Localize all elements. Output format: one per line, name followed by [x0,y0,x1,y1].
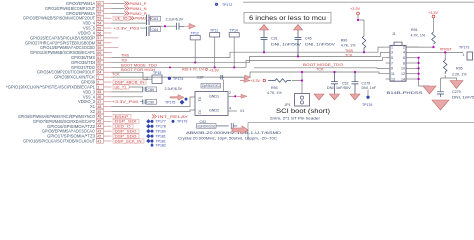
connector J1 body [390,32,406,81]
svg-text:+3.3V: +3.3V [428,11,438,15]
svg-text:1: 1 [97,75,99,79]
svg-text:TCK: TCK [112,72,120,76]
svg-text:TP14: TP14 [230,28,238,32]
svg-text:BOOT FOR HIGH: BOOT FOR HIGH [121,68,155,72]
net flag PWM1_P [112,2,147,7]
svg-text:DSP_SDO: DSP_SDO [115,130,137,134]
wire TDI [112,52,386,62]
wire R91 to pin2 [406,46,434,48]
svg-text:+3.3V_P63: +3.3V_P63 [113,27,139,31]
svg-text:R95: R95 [456,67,463,71]
svg-text:53: 53 [97,17,101,21]
test point TP174 [168,77,184,81]
net label DSP_SCK_IN [113,139,144,144]
resistor R94 [267,79,291,96]
test point TP15 [146,71,162,84]
capacitor C92 value box [197,120,238,129]
capacitor C31 DNI [260,25,302,53]
test point TP179 [172,120,188,124]
svg-text:50: 50 [97,2,101,6]
test point TP175 [165,98,188,105]
svg-text:51: 51 [97,7,101,11]
svg-text:TMS: TMS [121,54,129,58]
resistor R91 [411,28,436,44]
svg-text:8: 8 [403,61,405,65]
svg-text:C279: C279 [362,82,371,86]
svg-text:57: 57 [97,36,101,40]
power +3.3V rail 1 [350,7,364,36]
resistor R90 [341,36,366,58]
svg-text:DSP_48CB_IN: DSP_48CB_IN [115,80,145,84]
test point TP14 [229,28,239,67]
test point TP181 [146,134,166,139]
svg-text:TP182: TP182 [156,144,166,148]
svg-text:X2: X2 [198,110,202,114]
svg-text:SCI boot (short): SCI boot (short) [276,108,330,115]
svg-text:B14B-PHDSS: B14B-PHDSS [387,91,424,95]
svg-text:61: 61 [97,56,101,60]
svg-text:2.2K, 1%: 2.2K, 1% [452,72,467,76]
svg-text:TP12: TP12 [191,31,199,35]
svg-text:+3.3V: +3.3V [250,79,260,83]
svg-text:7: 7 [391,61,393,65]
svg-text:9: 9 [391,67,393,71]
capacitor C89 [143,87,183,92]
svg-text:#TRST: #TRST [440,48,453,52]
net flag arrow near C90 [170,95,184,101]
net label DSP_SDO [113,134,139,139]
svg-text:TP178: TP178 [156,125,166,129]
svg-text:42: 42 [97,134,101,138]
capacitor C45 DNI [294,25,336,57]
svg-text:6: 6 [403,56,405,60]
power +3.3V for JP1 [240,79,266,84]
svg-text:X1: X1 [198,97,202,101]
svg-text:1: 1 [146,77,148,81]
svg-text:R91: R91 [411,28,418,32]
svg-text:10pF/50V/C0G1: 10pF/50V/C0G1 [202,84,220,88]
resistor R95 [443,58,467,76]
ground right big [432,100,449,110]
svg-text:TP11: TP11 [210,28,218,32]
svg-text:C87: C87 [197,76,204,80]
svg-text:2: 2 [229,91,231,95]
svg-text:3: 3 [97,85,99,89]
wire SCI boot net [292,72,368,96]
svg-text:UE_65: UE_65 [115,17,128,21]
ground C279 left [350,94,360,100]
test point TP12 [190,31,200,62]
svg-text:C279: C279 [452,90,461,94]
svg-text:4.7K, 1%: 4.7K, 1% [411,34,426,38]
svg-text:TP176: TP176 [362,103,372,107]
svg-text:TP172: TP172 [222,3,232,7]
wire EMU bus [254,67,386,70]
wire TCK [112,72,386,77]
svg-text:GPIO18/SPICLKA/SCITXDB/XCLKOUT: GPIO18/SPICLKA/SCITXDB/XCLKOUT [23,139,95,144]
svg-text:2: 2 [403,45,405,49]
svg-text:6 inches or less to mcu: 6 inches or less to mcu [249,15,327,22]
svg-text:PWM1_P: PWM1_P [130,2,147,6]
svg-text:12: 12 [401,72,405,76]
svg-text:1: 1 [391,45,393,49]
net flag arrow right of C88 [184,23,196,29]
svg-text:43: 43 [97,129,101,133]
svg-text:TP177: TP177 [156,120,166,124]
wire TMS [112,47,386,57]
svg-text:55: 55 [97,26,101,30]
svg-text:10: 10 [401,67,405,71]
sheet border bottom edge [248,123,474,141]
svg-text:R94: R94 [271,86,278,90]
svg-text:R90: R90 [341,39,348,43]
crystal pin 4 [228,107,244,113]
svg-text:10pF/50V/C0G1: 10pF/50V/C0G1 [197,124,215,128]
svg-text:+3.3V: +3.3V [350,7,360,11]
capacitor C64 plates [147,27,150,37]
svg-text:X1: X1 [240,109,244,113]
svg-text:14: 14 [401,77,405,81]
capacitor C87 [197,75,224,80]
test point TP178 [146,124,166,129]
svg-text:C89: C89 [148,88,155,92]
wires X1 X2 into crystal [112,80,224,112]
wire GPIO34 row [112,72,153,79]
svg-text:2.2uF/6.3V: 2.2uF/6.3V [165,87,183,91]
svg-text:TCK: TCK [345,54,353,58]
wire TRST [419,52,463,58]
svg-text:C90: C90 [148,100,155,104]
svg-text:45: 45 [97,90,101,94]
svg-text:41: 41 [97,139,101,143]
ground JP1 net [314,94,324,100]
svg-text:R82 4.7K, 1%: R82 4.7K, 1% [182,67,205,71]
svg-text:59: 59 [97,46,101,50]
svg-text:UE_T1: UE_T1 [115,85,127,89]
wire R95 to grounds [441,75,457,92]
svg-text:TP173: TP173 [459,46,469,50]
wires to C89/C90 [112,87,143,102]
test point TP177 [146,119,166,124]
svg-text:45: 45 [97,120,101,124]
capacitor C90 [143,99,157,104]
net flag PWM2_N [130,16,152,21]
svg-text:47: 47 [97,100,101,104]
net label DSP_SDO [113,129,139,134]
svg-text:11: 11 [391,72,395,76]
svg-text:DNI, 1nF/5: DNI, 1nF/5 [452,95,474,99]
capacitor C52 [327,72,352,94]
net label LED_O [113,124,133,128]
svg-text:C31: C31 [271,37,278,41]
net label DSP_48CB_IN [113,80,146,85]
net label UE_65 [113,16,129,21]
svg-text:3: 3 [391,51,393,55]
svg-text:DNI, 1nF/50V: DNI, 1nF/50V [327,86,352,90]
svg-text:Crystal 20.000MHz, 10pF, 50ohm: Crystal 20.000MHz, 10pF, 50ohm, 10ppm, -… [178,137,277,141]
capacitor C279 right [437,90,474,99]
svg-text:49: 49 [97,110,101,114]
sheet border top edge [243,1,474,3]
svg-text:46: 46 [97,95,101,99]
svg-text:46: 46 [97,115,101,119]
net flag INT_RELAY [152,114,189,119]
test point TP173 [459,46,473,61]
test point TP172 [215,3,232,7]
svg-text:DSP_SDO: DSP_SDO [115,134,137,138]
wire TDO [112,58,386,68]
svg-text:C45: C45 [305,37,312,41]
ground J1 [423,86,436,94]
wires into C63/C64 [112,23,177,28]
svg-text:TCK: TCK [316,68,324,72]
test point TP176 [362,96,372,107]
svg-text:PWM2_P: PWM2_P [130,12,147,16]
power +3.3V rail 2 [428,11,438,32]
svg-text:TP175: TP175 [165,100,175,104]
svg-text:DNI, 1nF: DNI, 1nF [362,86,377,90]
net label BSKP [113,114,131,119]
resistor R82 [169,66,219,72]
ground right small [450,81,463,89]
svg-text:BOOT MODE_TDO: BOOT MODE_TDO [121,64,157,68]
net flag arrow right of C87 [245,75,251,80]
svg-text:C63: C63 [152,17,159,21]
svg-text:13: 13 [391,77,395,81]
svg-text:J1: J1 [392,32,396,36]
header JP1 [285,94,310,108]
net label DSP_SDI [113,119,139,124]
value box C63 [151,16,161,21]
net flag PWM1_N [112,6,147,11]
test point TP11 [210,28,220,67]
test point TP182 [146,139,166,148]
svg-text:4: 4 [229,107,231,111]
value box 10pF/50V/C0G1 [201,83,221,88]
svg-text:C64: C64 [152,28,159,32]
svg-text:4.7K, 1%: 4.7K, 1% [341,44,356,48]
svg-text:62: 62 [97,61,101,65]
svg-text:1: 1 [463,53,465,57]
svg-text:4.7K, 1%: 4.7K, 1% [267,91,282,95]
svg-text:+3.3V: +3.3V [209,69,219,73]
svg-text:TP179: TP179 [177,120,187,124]
connector J1 right pins [401,45,419,81]
J1 ground bus [419,58,430,86]
svg-text:PWM1_N: PWM1_N [130,7,147,11]
svg-text:56: 56 [97,31,101,35]
svg-text:TP15: TP15 [153,71,161,75]
svg-text:GND2: GND2 [209,109,219,113]
svg-text:48: 48 [97,105,101,109]
svg-text:60: 60 [97,51,101,55]
svg-text:TMS: TMS [345,49,353,53]
svg-text:BOOT MODE_TDO: BOOT MODE_TDO [303,63,343,67]
crystal pin 2 [228,91,247,98]
svg-text:64: 64 [97,71,101,75]
test point TP180 [146,129,166,134]
svg-text:DSP_SCK_IN: DSP_SCK_IN [115,139,142,143]
svg-text:TP180: TP180 [156,130,166,134]
connector J1 left pins [386,45,395,81]
svg-text:BSKP: BSKP [115,115,130,119]
svg-text:52: 52 [97,12,101,16]
capacitor C88 [177,23,185,30]
svg-text:TDI: TDI [121,59,127,63]
svg-text:JP1: JP1 [285,103,291,107]
svg-text:TP181: TP181 [156,134,166,138]
crystal Y1 body [195,92,228,116]
svg-text:C52: C52 [342,82,349,86]
svg-text:5: 5 [391,56,393,60]
svg-text:DSP_SDI: DSP_SDI [115,120,137,124]
svg-text:58: 58 [97,41,101,45]
svg-text:2mm, 2*1 ST Pin header: 2mm, 2*1 ST Pin header [270,117,321,121]
svg-text:+3.3V_P49: +3.3V_P49 [112,100,138,104]
svg-text:DNI, 1nF/50V: DNI, 1nF/50V [271,43,302,47]
svg-text:GND1: GND1 [209,95,219,99]
svg-text:2.2uF/6.3V: 2.2uF/6.3V [166,18,184,22]
net label UE_T1 [113,85,129,90]
svg-text:TP174: TP174 [173,77,183,81]
note box 6 inches or less to mcu [244,13,331,24]
value box C64 [151,27,161,32]
svg-text:54: 54 [97,21,101,25]
svg-text:LED_O: LED_O [115,125,131,129]
svg-text:DNI, 1nF/50V: DNI, 1nF/50V [305,43,336,47]
svg-text:44: 44 [97,125,101,129]
svg-text:4: 4 [403,51,405,55]
net flag PWM2_P [112,11,147,16]
capacitor C63 plates [147,15,150,26]
junction dots band [194,51,365,73]
net flag arrow bottom left [232,126,248,134]
MCU pin stub leads [104,4,119,141]
ground C52 [330,94,340,100]
svg-text:INT_RELAY: INT_RELAY [158,115,189,119]
capacitor C279 left [352,72,377,94]
svg-text:2: 2 [97,80,99,84]
MCU U1 pin number boxes [96,1,103,143]
svg-text:63: 63 [97,66,101,70]
